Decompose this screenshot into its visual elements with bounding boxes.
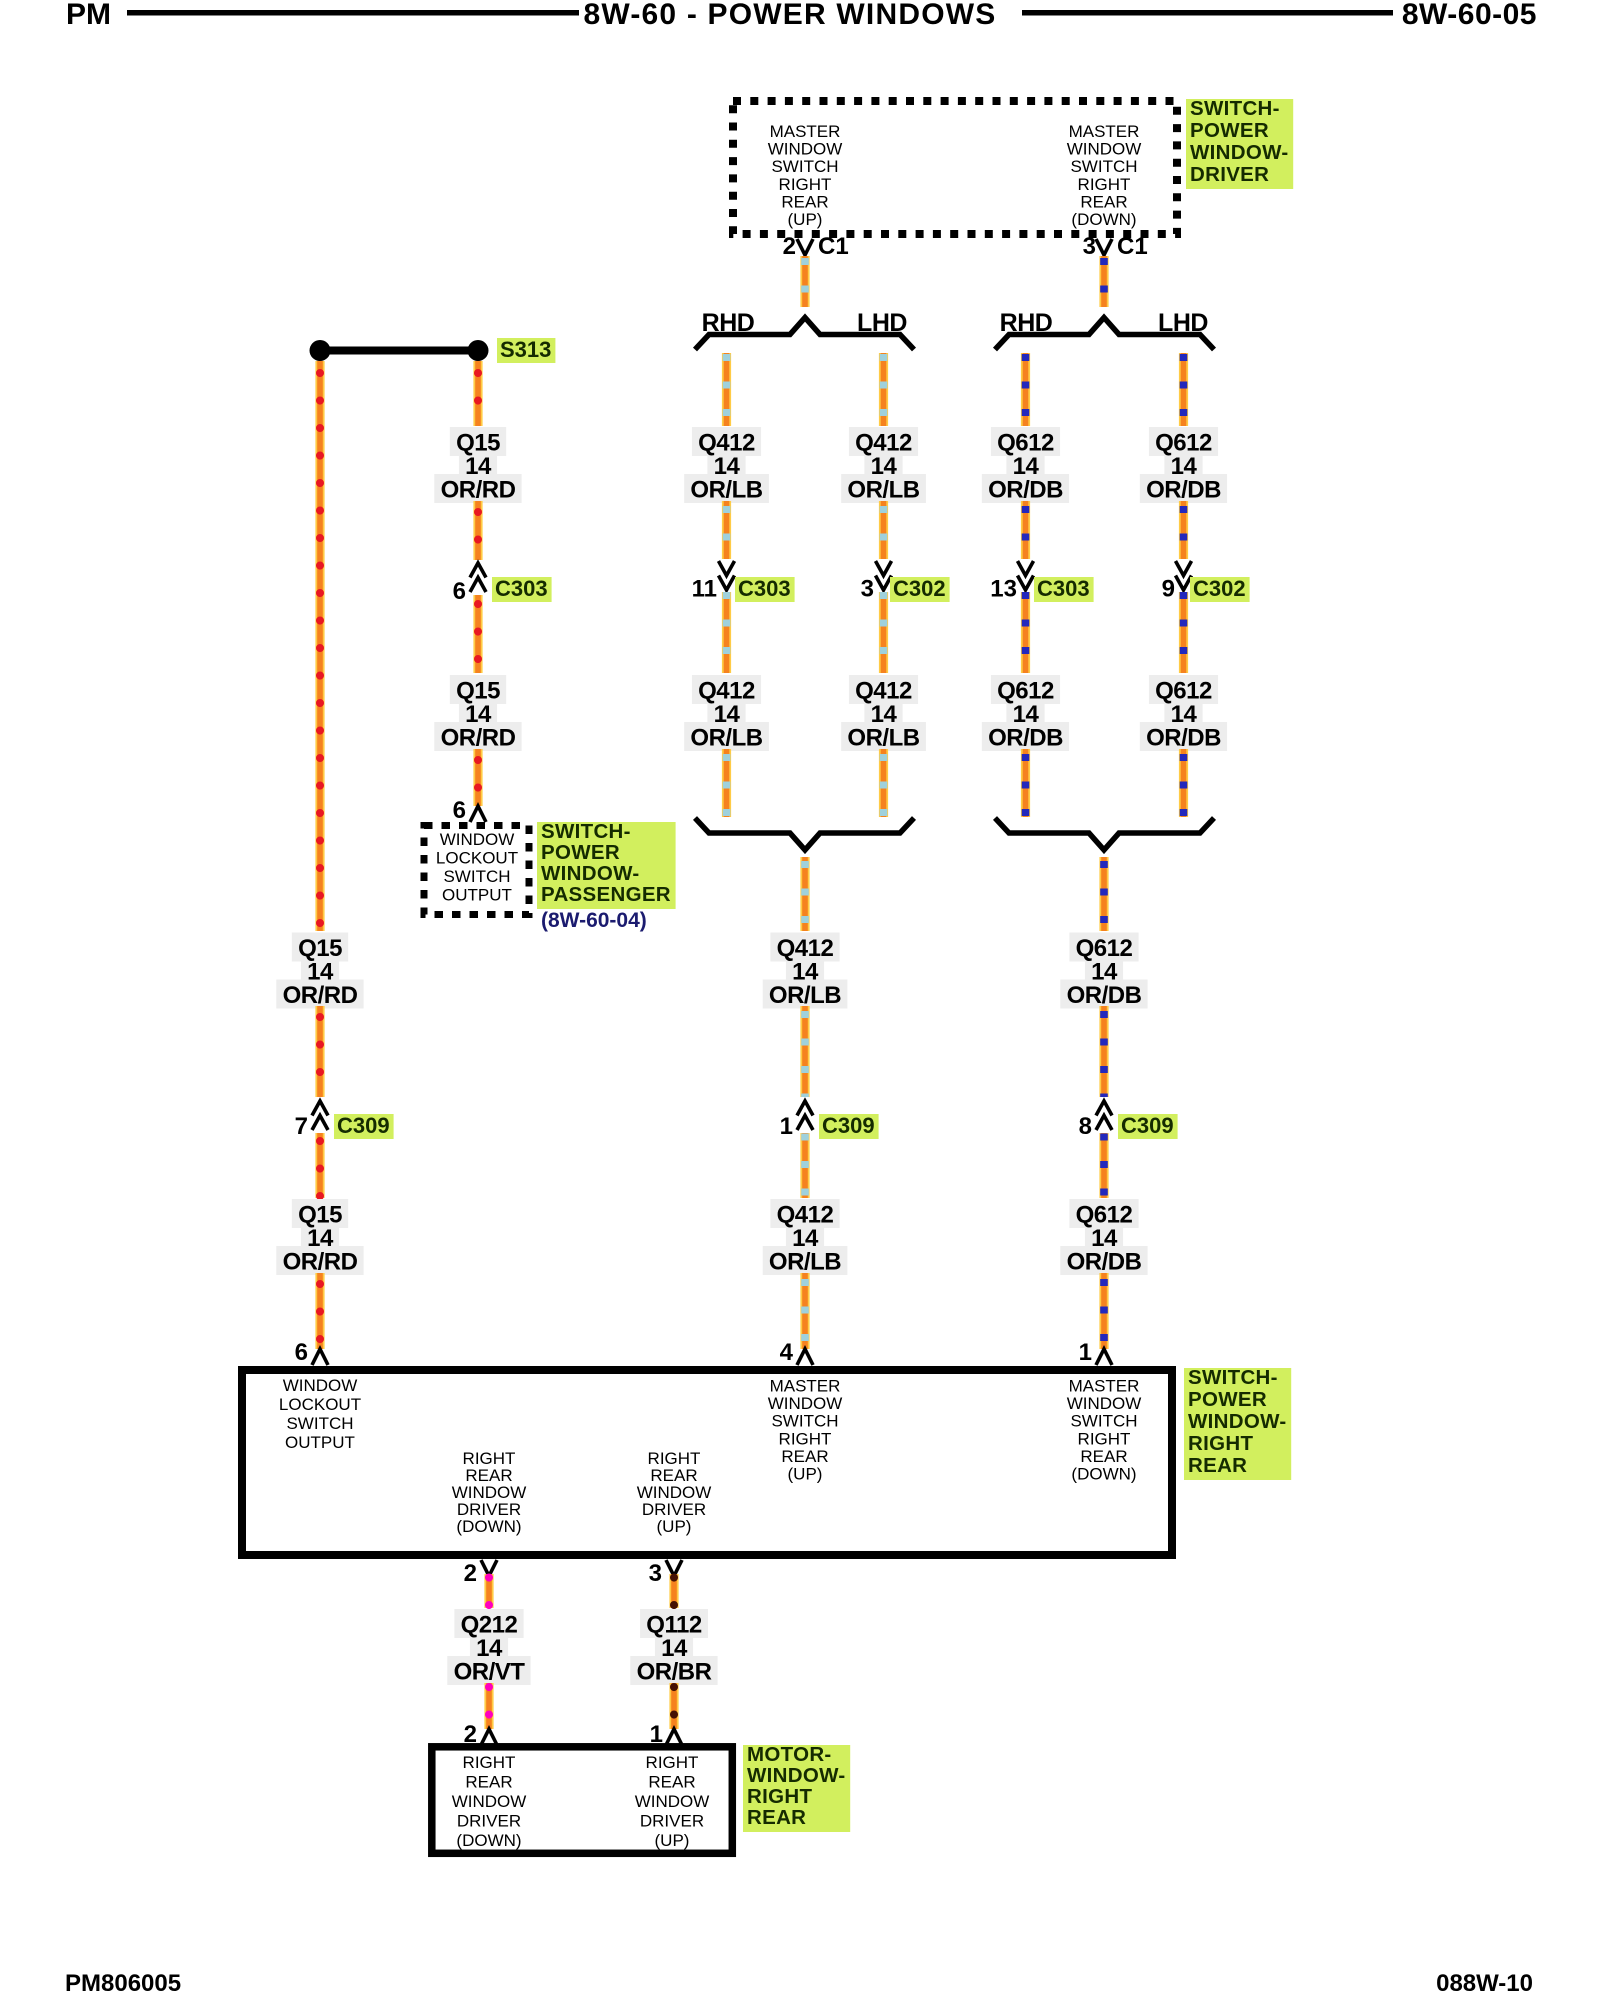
svg-text:PM: PM — [66, 0, 111, 31]
svg-text:OR/LB: OR/LB — [769, 1249, 841, 1276]
svg-text:WINDOW: WINDOW — [635, 1792, 710, 1811]
callout switch-power window-passenger — [537, 820, 676, 909]
callout switch-power window-right rear — [1184, 1366, 1291, 1480]
svg-text:DRIVER: DRIVER — [457, 1812, 521, 1831]
connector C303 terminals (pin 13) — [1018, 561, 1034, 590]
header rule left — [127, 10, 579, 16]
svg-text:POWER: POWER — [1188, 1388, 1267, 1411]
wire label Q15 14 OR/RD (column B lower) — [434, 675, 521, 752]
callout motor-window right rear — [743, 1743, 850, 1832]
wire label Q412 14 OR/LB (LHD upper) — [841, 427, 926, 504]
connector C303 terminals (pin 11) — [719, 561, 735, 590]
label C303 (column B) — [492, 576, 552, 602]
svg-text:C309: C309 — [1121, 1113, 1174, 1138]
svg-text:S313: S313 — [500, 337, 551, 362]
wire Q612 OR/DB RHD above C303 — [1021, 501, 1030, 559]
svg-text:OR/RD: OR/RD — [283, 1249, 358, 1276]
connector C309 terminals (pin 1) — [797, 1101, 813, 1130]
switch box terminal pin 6 — [312, 1349, 328, 1365]
header rule right — [1022, 10, 1393, 16]
wire Q15 OR/RD into switch box — [315, 1273, 324, 1349]
svg-text:OUTPUT: OUTPUT — [442, 886, 512, 905]
connector C1 terminal (pin 3) — [1096, 239, 1112, 255]
connector C302 terminals (pin 9) — [1176, 561, 1192, 590]
wire Q212 OR/VT into motor — [484, 1683, 493, 1729]
svg-text:OR/LB: OR/LB — [847, 477, 919, 504]
merge brace RHD/LHD for Q412 — [695, 818, 914, 850]
dashed box switch-power window-driver — [733, 101, 1177, 234]
wire Q112 OR/BR into motor — [669, 1683, 678, 1729]
svg-text:C302: C302 — [1193, 576, 1246, 601]
svg-text:LOCKOUT: LOCKOUT — [279, 1395, 361, 1414]
wire Q612 OR/DB into switch box — [1099, 1273, 1108, 1349]
svg-text:RIGHT: RIGHT — [1188, 1432, 1253, 1455]
svg-text:REAR: REAR — [465, 1773, 512, 1792]
wire Q15 OR/RD from splice S313 (upper run) — [315, 361, 324, 931]
svg-text:C303: C303 — [495, 576, 548, 601]
svg-text:OR/DB: OR/DB — [1146, 477, 1221, 504]
wire label Q112 14 OR/BR — [630, 1609, 717, 1686]
connector C309 terminals (pin 8) — [1096, 1101, 1112, 1130]
svg-text:OUTPUT: OUTPUT — [285, 1433, 355, 1452]
wire label Q412 14 OR/LB (merged) — [763, 933, 848, 1010]
svg-text:1: 1 — [780, 1113, 793, 1140]
switch box terminal pin 1 — [1096, 1349, 1112, 1365]
svg-text:RIGHT: RIGHT — [1078, 175, 1131, 194]
svg-text:C309: C309 — [822, 1113, 875, 1138]
svg-text:SWITCH: SWITCH — [1070, 1412, 1137, 1431]
motor terminal pin 2 — [481, 1729, 497, 1745]
wire Q412 OR/LB RHD into merge — [722, 749, 731, 817]
svg-text:WINDOW: WINDOW — [768, 140, 843, 159]
svg-text:OR/LB: OR/LB — [690, 477, 762, 504]
label master window switch right rear (down) — [1067, 122, 1142, 229]
wire Q212 OR/VT upper — [484, 1574, 493, 1608]
svg-text:C309: C309 — [337, 1113, 390, 1138]
svg-text:PASSENGER: PASSENGER — [541, 883, 671, 906]
svg-text:C303: C303 — [738, 576, 791, 601]
svg-text:RIGHT: RIGHT — [646, 1753, 699, 1772]
svg-text:DRIVER: DRIVER — [1190, 163, 1269, 186]
svg-text:MASTER: MASTER — [1069, 1377, 1140, 1396]
svg-text:9: 9 — [1162, 576, 1175, 603]
svg-text:OR/LB: OR/LB — [690, 725, 762, 752]
svg-text:RIGHT: RIGHT — [463, 1753, 516, 1772]
svg-text:8W-60 - POWER WINDOWS: 8W-60 - POWER WINDOWS — [584, 0, 997, 31]
wire label Q612 14 OR/DB (into switch) — [1060, 1199, 1147, 1276]
wire Q112 OR/BR upper — [669, 1574, 678, 1608]
svg-text:2: 2 — [464, 1560, 477, 1587]
svg-text:2: 2 — [783, 233, 796, 260]
wire Q612 from C1 pin 3 — [1099, 256, 1108, 307]
svg-text:REAR: REAR — [1080, 1447, 1127, 1466]
wire Q15 OR/RD between label and C309 — [315, 1006, 324, 1097]
svg-text:3: 3 — [1083, 233, 1096, 260]
label C309 (column A) — [334, 1113, 394, 1139]
wire Q412 OR/LB LHD upper — [879, 353, 888, 426]
wire label Q612 14 OR/DB (RHD upper) — [982, 427, 1069, 504]
wire Q612 OR/DB merged above C309 — [1099, 1006, 1108, 1097]
wire label Q612 14 OR/DB (LHD lower) — [1140, 675, 1227, 752]
svg-text:4: 4 — [780, 1339, 794, 1366]
split brace RHD/LHD for Q612 — [995, 318, 1214, 350]
wire Q612 OR/DB LHD upper — [1179, 353, 1188, 426]
svg-text:LOCKOUT: LOCKOUT — [436, 849, 518, 868]
wire Q412 OR/LB merged above C309 — [800, 1006, 809, 1097]
svg-text:OR/LB: OR/LB — [847, 725, 919, 752]
svg-text:MOTOR-: MOTOR- — [747, 1743, 832, 1766]
svg-text:RIGHT: RIGHT — [1078, 1429, 1131, 1448]
svg-text:(UP): (UP) — [657, 1517, 692, 1536]
svg-text:OR/VT: OR/VT — [454, 1659, 526, 1686]
svg-text:MASTER: MASTER — [1069, 122, 1140, 141]
wire Q412 OR/LB into switch box — [800, 1273, 809, 1349]
svg-text:6: 6 — [453, 797, 466, 824]
label right rear window driver (up) in switch box — [637, 1449, 712, 1536]
svg-text:REAR: REAR — [781, 192, 828, 211]
svg-text:OR/BR: OR/BR — [637, 1659, 712, 1686]
svg-text:WINDOW: WINDOW — [283, 1376, 358, 1395]
label master window switch right rear (up) in switch box — [768, 1377, 843, 1484]
wire label Q412 14 OR/LB (into switch) — [763, 1199, 848, 1276]
wire label Q412 14 OR/LB (RHD upper) — [684, 427, 769, 504]
label C302 (Q612 LHD) — [1190, 576, 1250, 602]
label window lockout switch output (dashed box) — [436, 830, 518, 905]
connector C303 terminals (pin 6) — [470, 563, 486, 592]
svg-text:POWER: POWER — [1190, 119, 1269, 142]
svg-text:13: 13 — [990, 576, 1017, 603]
svg-text:OR/LB: OR/LB — [769, 982, 841, 1009]
wire Q612 OR/DB LHD below C302 — [1179, 592, 1188, 673]
connector C302 terminals (pin 3) — [876, 561, 892, 590]
wire label Q15 14 OR/RD (column B upper) — [434, 427, 521, 504]
svg-text:(8W-60-04): (8W-60-04) — [541, 909, 647, 932]
wire Q612 OR/DB merged upper — [1099, 857, 1108, 931]
wire Q612 OR/DB RHD below C303 — [1021, 592, 1030, 673]
box motor-window right rear — [432, 1747, 733, 1854]
svg-text:DRIVER: DRIVER — [640, 1812, 704, 1831]
label right rear window driver (down) in motor box — [452, 1753, 527, 1850]
svg-text:OR/RD: OR/RD — [283, 982, 358, 1009]
svg-text:REAR: REAR — [1188, 1454, 1247, 1477]
wire label Q612 14 OR/DB (LHD upper) — [1140, 427, 1227, 504]
wire Q412 OR/LB LHD above C302 — [879, 501, 888, 559]
svg-text:OR/DB: OR/DB — [1067, 982, 1142, 1009]
svg-text:REAR: REAR — [781, 1447, 828, 1466]
svg-text:SWITCH: SWITCH — [771, 157, 838, 176]
svg-text:WINDOW: WINDOW — [768, 1394, 843, 1413]
svg-text:WINDOW: WINDOW — [1067, 1394, 1142, 1413]
svg-text:3: 3 — [861, 576, 874, 603]
svg-text:WINDOW: WINDOW — [452, 1792, 527, 1811]
box switch-power window-right rear — [242, 1370, 1172, 1555]
svg-text:WINDOW-: WINDOW- — [541, 862, 639, 885]
switch box terminal pin 2 (down output) — [481, 1560, 497, 1576]
wire Q412 from C1 pin 2 — [800, 256, 809, 307]
callout switch-power window-driver — [1186, 97, 1293, 189]
svg-text:OR/DB: OR/DB — [1067, 1249, 1142, 1276]
label window lockout switch output (in switch box) — [279, 1376, 361, 1452]
wire Q412 OR/LB LHD below C302 — [879, 592, 888, 673]
svg-text:C303: C303 — [1037, 576, 1090, 601]
svg-text:WINDOW-: WINDOW- — [1188, 1410, 1286, 1433]
wire label Q612 14 OR/DB (RHD lower) — [982, 675, 1069, 752]
svg-text:OR/DB: OR/DB — [1146, 725, 1221, 752]
svg-text:7: 7 — [295, 1113, 308, 1140]
wire Q412 OR/LB RHD above C303 — [722, 501, 731, 559]
svg-text:C1: C1 — [818, 233, 849, 260]
svg-text:1: 1 — [1079, 1339, 1092, 1366]
wire label Q412 14 OR/LB (LHD lower) — [841, 675, 926, 752]
svg-text:6: 6 — [453, 578, 466, 605]
connector C1 terminal (pin 2) — [797, 239, 813, 255]
splice S313 — [310, 340, 489, 361]
svg-text:6: 6 — [295, 1339, 308, 1366]
svg-text:PM806005: PM806005 — [65, 1970, 181, 1997]
svg-text:(UP): (UP) — [788, 1465, 823, 1484]
svg-text:RIGHT: RIGHT — [779, 175, 832, 194]
svg-text:OR/RD: OR/RD — [441, 477, 516, 504]
label right rear window driver (down) in switch box — [452, 1449, 527, 1536]
wire Q15 OR/RD above C303 — [473, 501, 482, 560]
wire Q412 OR/LB RHD upper — [722, 353, 731, 426]
wire label Q612 14 OR/DB (merged) — [1060, 933, 1147, 1010]
merge brace RHD/LHD for Q612 — [995, 818, 1214, 850]
svg-text:WINDOW: WINDOW — [440, 830, 515, 849]
svg-text:OR/DB: OR/DB — [988, 725, 1063, 752]
svg-text:MASTER: MASTER — [770, 1377, 841, 1396]
label C302 (Q412 LHD) — [890, 576, 950, 602]
wire Q412 OR/LB merged upper — [800, 857, 809, 931]
label C309 (Q612) — [1118, 1113, 1178, 1139]
svg-text:(DOWN): (DOWN) — [456, 1517, 521, 1536]
connector C309 terminals (pin 7) — [312, 1101, 328, 1130]
wire label Q212 14 OR/VT — [447, 1609, 530, 1686]
svg-text:POWER: POWER — [541, 841, 620, 864]
wire Q15 OR/RD below C303 — [473, 595, 482, 673]
svg-text:C302: C302 — [893, 576, 946, 601]
svg-text:(DOWN): (DOWN) — [456, 1831, 521, 1850]
svg-text:11: 11 — [692, 576, 717, 603]
svg-text:SWITCH-: SWITCH- — [541, 820, 631, 843]
svg-text:OR/DB: OR/DB — [988, 477, 1063, 504]
split brace RHD/LHD for Q412 — [695, 318, 914, 350]
label C303 (Q412 RHD) — [735, 576, 795, 602]
switch box terminal pin 3 (up output) — [666, 1560, 682, 1576]
svg-text:088W-10: 088W-10 — [1436, 1970, 1533, 1997]
svg-text:C1: C1 — [1117, 233, 1148, 260]
dashed box window lockout switch output — [424, 826, 529, 915]
svg-text:REAR: REAR — [1080, 192, 1127, 211]
svg-text:8W-60-05: 8W-60-05 — [1402, 0, 1537, 31]
wire Q15 OR/RD into lockout switch — [473, 749, 482, 806]
wire Q612 OR/DB LHD into merge — [1179, 749, 1188, 817]
wire Q412 OR/LB LHD into merge — [879, 749, 888, 817]
svg-text:REAR: REAR — [747, 1806, 806, 1829]
svg-text:(DOWN): (DOWN) — [1071, 210, 1136, 229]
svg-text:REAR: REAR — [648, 1773, 695, 1792]
svg-text:RIGHT: RIGHT — [779, 1429, 832, 1448]
svg-text:MASTER: MASTER — [770, 122, 841, 141]
svg-text:SWITCH: SWITCH — [443, 867, 510, 886]
wire label Q15 14 OR/RD (lower, column A) — [276, 1199, 363, 1276]
svg-text:SWITCH: SWITCH — [1070, 157, 1137, 176]
svg-text:(UP): (UP) — [655, 1831, 690, 1850]
svg-text:8: 8 — [1079, 1113, 1092, 1140]
wire Q15 OR/RD below C309 — [315, 1133, 324, 1198]
wire Q612 OR/DB LHD above C302 — [1179, 501, 1188, 559]
svg-text:(DOWN): (DOWN) — [1071, 1465, 1136, 1484]
wire Q15 OR/RD from splice S313 (column B) — [473, 361, 482, 426]
svg-text:WINDOW-: WINDOW- — [747, 1764, 845, 1787]
switch box terminal pin 4 — [797, 1349, 813, 1365]
svg-text:WINDOW: WINDOW — [1067, 140, 1142, 159]
label C303 (Q612 RHD) — [1034, 576, 1094, 602]
svg-text:SWITCH: SWITCH — [286, 1414, 353, 1433]
svg-text:RIGHT: RIGHT — [747, 1785, 812, 1808]
wire Q412 OR/LB RHD below C303 — [722, 592, 731, 673]
window lockout switch terminal pin 6 — [470, 806, 486, 822]
svg-text:3: 3 — [649, 1560, 662, 1587]
svg-text:(UP): (UP) — [788, 210, 823, 229]
label right rear window driver (up) in motor box — [635, 1753, 710, 1850]
svg-text:SWITCH: SWITCH — [771, 1412, 838, 1431]
label master window switch right rear (down) in switch box — [1067, 1377, 1142, 1484]
motor terminal pin 1 — [666, 1729, 682, 1745]
wire label Q15 14 OR/RD (column A) — [276, 933, 363, 1010]
wire label Q412 14 OR/LB (RHD lower) — [684, 675, 769, 752]
label C309 (Q412) — [819, 1113, 879, 1139]
wire Q612 OR/DB RHD into merge — [1021, 749, 1030, 817]
svg-text:WINDOW-: WINDOW- — [1190, 141, 1288, 164]
label S313 — [497, 337, 555, 363]
label master window switch right rear (up) — [768, 122, 843, 229]
svg-text:OR/RD: OR/RD — [441, 725, 516, 752]
wire Q612 OR/DB below C309 — [1099, 1133, 1108, 1198]
wire Q412 OR/LB below C309 — [800, 1133, 809, 1198]
svg-text:SWITCH-: SWITCH- — [1188, 1366, 1278, 1389]
wire Q612 OR/DB RHD upper — [1021, 353, 1030, 426]
svg-text:SWITCH-: SWITCH- — [1190, 97, 1280, 120]
